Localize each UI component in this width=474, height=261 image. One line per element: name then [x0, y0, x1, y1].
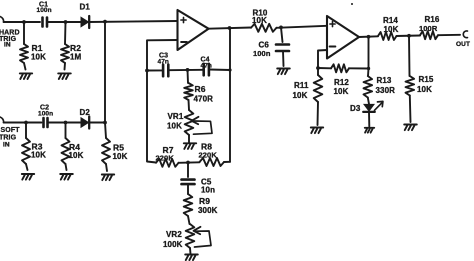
svg-text:300K: 300K — [198, 206, 218, 215]
svg-text:VR2: VR2 — [166, 230, 182, 239]
svg-text:IN: IN — [4, 42, 11, 49]
svg-text:VR1: VR1 — [168, 112, 184, 121]
svg-text:100K: 100K — [163, 240, 183, 249]
svg-text:10K: 10K — [334, 87, 349, 96]
svg-text:D3: D3 — [350, 104, 361, 113]
svg-text:10K: 10K — [167, 122, 182, 131]
svg-text:220K: 220K — [199, 151, 218, 160]
svg-text:10K: 10K — [417, 85, 432, 94]
svg-text:R15: R15 — [419, 75, 434, 84]
svg-text:SOFT: SOFT — [1, 127, 21, 134]
svg-text:R6: R6 — [195, 84, 206, 94]
svg-text:220K: 220K — [156, 154, 175, 163]
svg-text:R1: R1 — [32, 43, 43, 53]
svg-text:OUT: OUT — [456, 41, 470, 48]
svg-text:100n: 100n — [253, 49, 271, 58]
svg-text:R11: R11 — [294, 81, 309, 90]
svg-text:330R: 330R — [376, 86, 396, 95]
svg-text:100n: 100n — [37, 7, 52, 14]
svg-text:47n: 47n — [201, 63, 213, 70]
svg-text:R2: R2 — [70, 43, 81, 53]
svg-text:10K: 10K — [252, 16, 267, 25]
svg-text:1M: 1M — [70, 53, 82, 62]
svg-text:100R: 100R — [419, 24, 438, 33]
svg-text:10K: 10K — [31, 53, 46, 62]
svg-text:10K: 10K — [384, 25, 399, 34]
svg-text:10K: 10K — [31, 151, 46, 160]
svg-text:100n: 100n — [38, 111, 53, 118]
svg-text:10K: 10K — [113, 152, 128, 161]
svg-text:R14: R14 — [383, 16, 398, 25]
svg-text:R12: R12 — [334, 78, 349, 87]
svg-text:D2: D2 — [80, 108, 91, 117]
svg-text:10K: 10K — [293, 91, 308, 100]
svg-text:47n: 47n — [158, 59, 170, 66]
svg-text:470R: 470R — [194, 95, 214, 104]
svg-text:IN: IN — [3, 142, 10, 149]
svg-text:R5: R5 — [113, 143, 124, 153]
svg-text:10n: 10n — [201, 186, 215, 195]
svg-text:D1: D1 — [80, 3, 91, 12]
svg-text:10K: 10K — [69, 151, 84, 160]
svg-text:R13: R13 — [377, 76, 392, 85]
svg-text:R9: R9 — [199, 196, 210, 206]
svg-text:R16: R16 — [425, 15, 440, 24]
svg-text:TRIG: TRIG — [0, 135, 17, 142]
